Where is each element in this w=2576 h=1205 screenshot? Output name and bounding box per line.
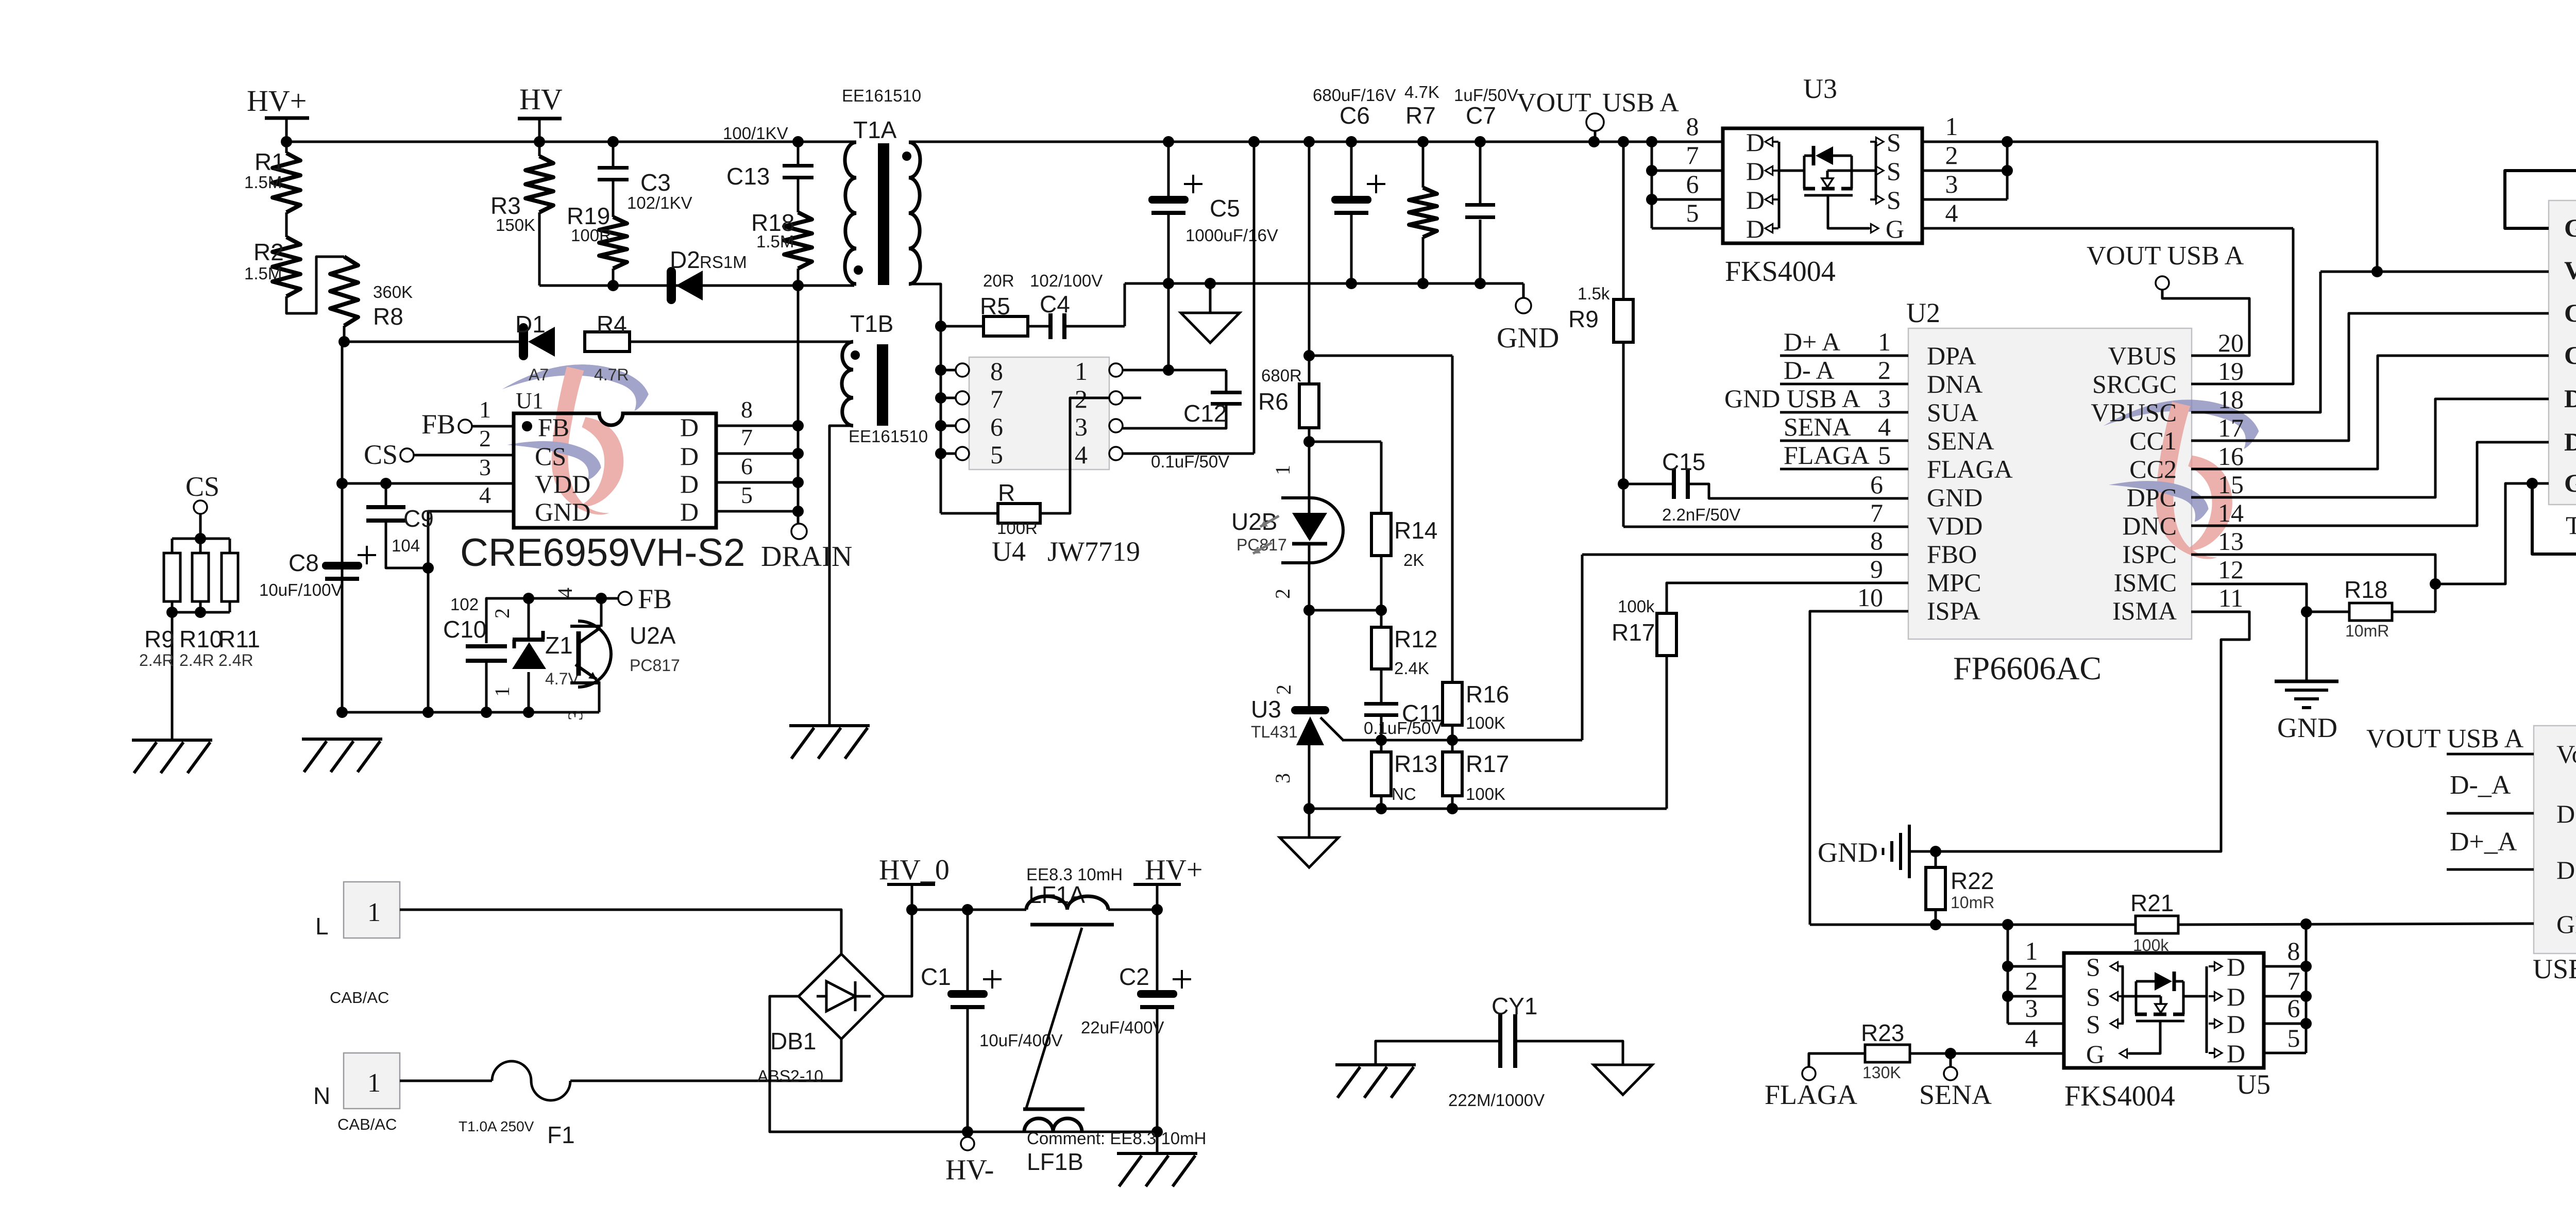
watermark logo left xyxy=(502,364,649,514)
svg-text:U2A: U2A xyxy=(630,622,676,649)
svg-text:FLAGA: FLAGA xyxy=(1784,441,1870,470)
svg-text:R21: R21 xyxy=(2130,890,2174,916)
wire U1 D pins to DRAIN xyxy=(716,425,798,427)
svg-text:R17: R17 xyxy=(1612,619,1655,646)
capacitor C15 2.2nF/50V xyxy=(1623,483,1672,486)
svg-text:20R: 20R xyxy=(983,271,1014,290)
svg-text:7: 7 xyxy=(2287,966,2300,995)
svg-text:TYPE C: TYPE C xyxy=(2566,511,2576,540)
wire FB node xyxy=(529,597,618,600)
svg-text:FP6606AC: FP6606AC xyxy=(1953,650,2102,687)
svg-text:6: 6 xyxy=(990,412,1003,441)
watermark logo right xyxy=(2104,399,2259,559)
node R19 bottom junction xyxy=(607,280,619,291)
svg-text:S: S xyxy=(2086,952,2100,981)
svg-text:GND: GND xyxy=(1818,837,1878,868)
IC U3 pin stubs left xyxy=(1652,170,1723,172)
svg-text:LF1A: LF1A xyxy=(1028,881,1085,908)
svg-text:R4: R4 xyxy=(597,311,627,338)
svg-text:VBUSC: VBUSC xyxy=(2091,398,2177,427)
wire bridge negative to HV- bus xyxy=(770,996,968,1132)
svg-text:GND: GND xyxy=(535,497,590,526)
connector N body xyxy=(344,1053,400,1109)
svg-text:MPC: MPC xyxy=(1927,568,1981,597)
wire R9 to VDD pin7 xyxy=(1623,526,1908,528)
diode D2 RS1M xyxy=(667,267,676,304)
svg-text:1: 1 xyxy=(479,396,491,423)
svg-text:1: 1 xyxy=(1271,465,1294,475)
node U2B cathode junction xyxy=(1303,605,1315,616)
svg-text:100R: 100R xyxy=(997,518,1038,538)
svg-text:102: 102 xyxy=(450,595,479,614)
node HV+ rail junctions xyxy=(281,136,292,147)
bridge rectifier DB1 ABS2-10 xyxy=(799,954,884,1039)
svg-text:1: 1 xyxy=(367,898,381,927)
svg-text:DNC: DNC xyxy=(2122,511,2177,540)
ground CY1 right triangle xyxy=(1594,1065,1652,1095)
ground CY1 left xyxy=(1335,1063,1416,1066)
resistor R18 1.5M xyxy=(784,212,812,269)
resistor R1 xyxy=(285,142,288,153)
svg-text:ABS2-10: ABS2-10 xyxy=(757,1067,823,1085)
svg-text:104: 104 xyxy=(392,536,420,555)
wire HV to D2 row xyxy=(539,284,798,287)
svg-text:NC: NC xyxy=(1392,784,1416,804)
node FB net junctions xyxy=(523,593,534,604)
svg-text:2.4K: 2.4K xyxy=(1394,659,1429,678)
svg-text:1: 1 xyxy=(367,1068,381,1098)
svg-text:VBUS: VBUS xyxy=(2108,341,2177,370)
ground T1B xyxy=(789,724,870,727)
svg-text:SENA: SENA xyxy=(1927,426,1994,455)
svg-text:Vout: Vout xyxy=(2556,740,2576,768)
svg-text:R1: R1 xyxy=(255,148,285,175)
terminal FLAGA xyxy=(1802,1067,1816,1080)
svg-text:U4: U4 xyxy=(992,536,1026,567)
svg-text:FBO: FBO xyxy=(1927,540,1977,568)
svg-text:2.4R: 2.4R xyxy=(218,651,253,670)
wire VDD node vertical xyxy=(341,342,344,712)
node R8 bottom junction xyxy=(338,336,350,347)
svg-text:Z1: Z1 xyxy=(545,632,573,659)
transformer T1A primary phase dot xyxy=(854,265,863,275)
node VBUS junction xyxy=(2371,266,2383,277)
wire U5 drain feed to D bus xyxy=(2183,995,2207,998)
ground GND bars xyxy=(2275,680,2338,683)
svg-text:D+: D+ xyxy=(2556,856,2576,884)
resistor R22 10mR xyxy=(1935,851,1937,867)
svg-text:22uF/400V: 22uF/400V xyxy=(1081,1018,1164,1037)
wire TYPE C shell ground xyxy=(2505,171,2576,554)
svg-text:2K: 2K xyxy=(1403,550,1424,570)
svg-text:10uF/100V: 10uF/100V xyxy=(259,580,342,599)
svg-text:6: 6 xyxy=(1686,170,1699,198)
svg-text:DB1: DB1 xyxy=(770,1028,816,1055)
IC U5 FKS4004 body xyxy=(2064,953,2264,1068)
svg-text:VOUT USB A: VOUT USB A xyxy=(2087,241,2244,271)
svg-text:C7: C7 xyxy=(1466,102,1496,129)
wire U4 pin1 to VOUT net xyxy=(1123,369,1226,372)
svg-text:SRCGC: SRCGC xyxy=(2092,370,2177,398)
wire LF1A to HV+ xyxy=(1108,909,1157,911)
capacitor C1 10uF/400V xyxy=(967,910,969,991)
svg-text:R17: R17 xyxy=(1466,750,1509,777)
resistor R16 100K xyxy=(1443,682,1462,725)
svg-text:R22: R22 xyxy=(1951,867,1994,894)
svg-text:ISPA: ISPA xyxy=(1927,596,1980,625)
svg-text:D: D xyxy=(2227,982,2245,1011)
svg-text:13: 13 xyxy=(2218,527,2244,556)
svg-text:ISMA: ISMA xyxy=(2112,596,2177,625)
svg-text:8: 8 xyxy=(1686,112,1699,141)
connector USB A body xyxy=(2534,726,2576,953)
IC U2 FP6606AC body xyxy=(1908,328,2192,639)
connector L body xyxy=(344,882,400,938)
svg-text:7: 7 xyxy=(741,424,753,450)
svg-text:N: N xyxy=(313,1082,330,1109)
svg-text:DRAIN: DRAIN xyxy=(761,541,852,573)
svg-text:G: G xyxy=(1886,214,1904,243)
svg-text:R5: R5 xyxy=(980,293,1010,320)
resistor R23 130K xyxy=(1865,1045,1910,1062)
svg-text:CS: CS xyxy=(185,471,219,502)
svg-text:C1: C1 xyxy=(921,963,951,990)
svg-text:SUA: SUA xyxy=(1927,398,1978,427)
svg-text:T1A: T1A xyxy=(853,116,897,143)
wire DPC pin15 to TYPE C D+ xyxy=(2191,399,2549,497)
svg-text:PC817: PC817 xyxy=(1236,535,1287,554)
svg-text:680R: 680R xyxy=(1261,366,1302,385)
resistor R 100R U4 xyxy=(941,512,998,515)
wire ISPC branch to GND C xyxy=(2435,483,2532,584)
svg-text:D: D xyxy=(1746,214,1765,243)
svg-text:DNA: DNA xyxy=(1927,370,1982,398)
svg-text:1.5M: 1.5M xyxy=(756,232,794,251)
resistor R19 100R xyxy=(599,217,627,269)
wire HV+ rail xyxy=(286,141,856,143)
svg-text:EE161510: EE161510 xyxy=(842,86,921,105)
wire R2 to R8 jog xyxy=(286,257,344,313)
node GND C junction xyxy=(2527,478,2538,489)
svg-text:3: 3 xyxy=(1075,412,1088,441)
IC U3 FKS4004 body xyxy=(1723,128,1922,243)
svg-text:CS: CS xyxy=(535,442,566,471)
node GND A junction xyxy=(2300,918,2312,930)
svg-text:VOUT USB A: VOUT USB A xyxy=(2366,724,2524,754)
svg-text:D: D xyxy=(2227,1039,2245,1068)
IC U1 CRE6959VH-S2 body xyxy=(514,413,716,528)
node D2 T1A junction xyxy=(792,280,804,291)
svg-text:S: S xyxy=(1887,157,1901,186)
svg-text:15: 15 xyxy=(2218,470,2244,499)
wire CS sense bottom xyxy=(172,611,230,614)
svg-text:102/100V: 102/100V xyxy=(1030,271,1103,290)
svg-text:2: 2 xyxy=(490,608,514,618)
svg-text:GND C: GND C xyxy=(2564,468,2576,497)
IC U3 gate wire xyxy=(1828,195,1869,228)
ground CS sense xyxy=(132,739,212,742)
capacitor C8 10uF/100V xyxy=(322,562,362,570)
svg-text:R9: R9 xyxy=(1568,306,1599,332)
svg-text:VBUS: VBUS xyxy=(2564,256,2576,284)
capacitor C3 102/1KV xyxy=(612,142,615,168)
optocoupler U2A PC817 transistor xyxy=(578,621,611,687)
transformer T1B winding xyxy=(842,342,853,426)
zener Z1 4.7V xyxy=(528,598,530,639)
capacitor C12 0.1uF/50V xyxy=(1225,370,1228,392)
svg-text:4: 4 xyxy=(479,482,491,508)
svg-text:D-_A: D-_A xyxy=(2450,771,2511,800)
svg-text:3: 3 xyxy=(1945,170,1958,198)
wire C5 vertical to U4 pin1 xyxy=(1167,283,1170,370)
svg-text:GND: GND xyxy=(2277,712,2337,743)
svg-text:VOUT: VOUT xyxy=(1517,88,1591,118)
svg-text:CAB/AC: CAB/AC xyxy=(330,989,389,1007)
resistor R10 2.4R sense xyxy=(199,539,202,553)
svg-text:R14: R14 xyxy=(1394,517,1437,544)
svg-text:SENA: SENA xyxy=(1784,412,1851,441)
svg-text:2.2nF/50V: 2.2nF/50V xyxy=(1662,505,1740,524)
terminal GND secondary xyxy=(1522,283,1525,298)
svg-text:VDD: VDD xyxy=(535,470,590,498)
svg-text:8: 8 xyxy=(2287,936,2300,965)
svg-text:U3: U3 xyxy=(1803,73,1837,104)
node R22 top junction xyxy=(1930,846,1941,857)
svg-text:R12: R12 xyxy=(1394,626,1437,652)
wire ISMC to ground xyxy=(2306,612,2308,680)
svg-text:C8: C8 xyxy=(289,549,319,576)
terminal FB right xyxy=(618,592,632,605)
svg-text:2: 2 xyxy=(1878,356,1891,384)
svg-text:R23: R23 xyxy=(1861,1019,1904,1046)
svg-text:100K: 100K xyxy=(1466,713,1505,732)
svg-text:100R: 100R xyxy=(571,226,612,245)
svg-text:C5: C5 xyxy=(1210,195,1240,222)
IC U4 pin circles right xyxy=(1109,363,1123,377)
svg-text:D: D xyxy=(1746,186,1765,214)
svg-text:D: D xyxy=(2227,1010,2245,1039)
svg-text:4: 4 xyxy=(1878,412,1891,441)
wire R4 to T1B xyxy=(630,341,853,343)
IC U5 mosfet xyxy=(2135,1013,2147,1016)
svg-text:USB A: USB A xyxy=(1602,88,1679,118)
wire ISPC pin13 to R18 node xyxy=(2191,555,2435,612)
svg-text:1.5k: 1.5k xyxy=(1578,284,1610,303)
svg-text:20: 20 xyxy=(2218,328,2244,357)
node ISPC R18 junction xyxy=(2430,578,2441,590)
svg-text:FKS4004: FKS4004 xyxy=(1725,256,1836,288)
svg-text:Comment: EE8.3 10mH: Comment: EE8.3 10mH xyxy=(1027,1129,1206,1148)
IC U5 body diode xyxy=(2123,995,2161,998)
svg-text:R11: R11 xyxy=(218,626,260,652)
wire ISMA pin11 jog xyxy=(1936,612,2249,851)
wire feedback mid bus xyxy=(1342,739,1582,742)
IC U2 pin stubs left 1-5 xyxy=(1780,355,1908,357)
resistor R12 2.4K xyxy=(1380,610,1383,627)
svg-text:S: S xyxy=(2086,1010,2100,1039)
wire U4 pin4 to VOUT rail xyxy=(1123,453,1254,455)
wire GND pin4 U1 xyxy=(428,511,514,712)
svg-text:VDD: VDD xyxy=(1927,511,1982,540)
wire C2 to ground xyxy=(1156,1132,1159,1152)
wire primary ground bus xyxy=(342,711,599,714)
svg-text:1: 1 xyxy=(1945,112,1958,141)
svg-text:FB: FB xyxy=(538,413,569,442)
wire R6 top jog to R16 xyxy=(1309,355,1452,357)
svg-text:5: 5 xyxy=(2287,1024,2300,1052)
svg-text:R2: R2 xyxy=(253,239,284,265)
svg-text:6: 6 xyxy=(741,453,753,479)
transformer T1A secondary winding xyxy=(909,142,920,284)
node DRAIN junctions xyxy=(792,420,804,431)
svg-text:F1: F1 xyxy=(547,1122,575,1148)
svg-text:100k: 100k xyxy=(1618,597,1655,616)
node SENA junction xyxy=(1945,1048,1956,1059)
svg-text:100/1KV: 100/1KV xyxy=(723,124,788,143)
node R18 left junction xyxy=(2301,606,2312,617)
svg-text:102/1KV: 102/1KV xyxy=(627,193,692,212)
svg-text:FKS4004: FKS4004 xyxy=(2064,1080,2175,1112)
svg-text:FLAGA: FLAGA xyxy=(1927,455,2013,483)
resistor R11 2.4R sense xyxy=(229,539,231,553)
svg-text:FB: FB xyxy=(421,409,455,440)
svg-text:360K: 360K xyxy=(373,282,413,302)
svg-text:D: D xyxy=(680,497,699,526)
resistor R5 20R xyxy=(941,325,984,328)
svg-text:222M/1000V: 222M/1000V xyxy=(1448,1091,1545,1110)
svg-text:8: 8 xyxy=(990,357,1003,386)
svg-text:5: 5 xyxy=(1878,441,1891,470)
svg-text:100K: 100K xyxy=(1466,784,1505,804)
ground triangle secondary xyxy=(1209,283,1212,313)
svg-text:D: D xyxy=(1746,157,1765,186)
capacitor C5 1000uF/16V xyxy=(1167,142,1170,197)
wire HV_0 rail xyxy=(912,909,1026,911)
svg-text:RS1M: RS1M xyxy=(700,253,747,272)
wire FBO to U2 pin8 xyxy=(1582,554,1908,556)
svg-text:6: 6 xyxy=(1870,470,1883,499)
svg-text:GND A: GND A xyxy=(2556,910,2576,939)
IC U3 right pin wires xyxy=(1922,141,2007,143)
svg-text:8: 8 xyxy=(741,396,753,423)
capacitor C11 0.1uF/50V xyxy=(1380,669,1383,703)
svg-text:D- A: D- A xyxy=(1784,356,1835,384)
svg-text:JW7719: JW7719 xyxy=(1047,536,1140,567)
svg-text:3: 3 xyxy=(479,454,491,480)
svg-text:10: 10 xyxy=(1857,583,1883,612)
svg-text:ISMC: ISMC xyxy=(2114,568,2177,597)
svg-text:USB A: USB A xyxy=(2533,953,2576,984)
svg-text:R16: R16 xyxy=(1466,681,1509,708)
wire ISMC pin12 to R18 xyxy=(2191,584,2307,612)
optocoupler U2B light arrows xyxy=(1260,516,1279,527)
svg-text:1.5M: 1.5M xyxy=(244,173,282,192)
svg-text:4: 4 xyxy=(1075,440,1088,469)
resistor R2 xyxy=(285,212,288,237)
svg-text:2: 2 xyxy=(1272,684,1295,695)
svg-text:R10: R10 xyxy=(179,626,223,652)
wire U3 source feed to S bus xyxy=(1827,170,1876,172)
svg-text:4: 4 xyxy=(1945,198,1958,227)
wire DRAIN vertical xyxy=(797,286,800,524)
resistor R8 360K xyxy=(330,257,358,326)
svg-text:R18: R18 xyxy=(2344,576,2387,603)
svg-text:D: D xyxy=(680,442,699,471)
inductor LF1B coupled xyxy=(1024,1118,1082,1132)
svg-text:D: D xyxy=(680,413,699,442)
svg-text:9: 9 xyxy=(1870,555,1883,583)
wire TL431 ref diagonal xyxy=(1320,717,1344,741)
svg-text:5: 5 xyxy=(990,440,1003,469)
svg-text:HV+: HV+ xyxy=(1145,854,1202,886)
svg-text:19: 19 xyxy=(2218,357,2244,386)
svg-text:FLAGA: FLAGA xyxy=(1765,1079,1857,1110)
resistor R6 680R xyxy=(1308,142,1311,384)
transformer T1B phase dot xyxy=(851,350,860,360)
svg-text:CC2: CC2 xyxy=(2129,455,2177,483)
wire CC2 pin16 to TYPE C CC2 xyxy=(2191,356,2549,469)
terminal HV- xyxy=(967,1132,969,1137)
svg-text:R13: R13 xyxy=(1394,750,1437,777)
svg-text:HV-: HV- xyxy=(945,1154,994,1186)
svg-text:2.4R: 2.4R xyxy=(139,651,174,670)
svg-text:1: 1 xyxy=(1075,357,1088,386)
svg-text:R8: R8 xyxy=(373,303,403,330)
wire U5 left bus xyxy=(2007,925,2009,1024)
svg-text:2: 2 xyxy=(2025,966,2038,995)
svg-text:4: 4 xyxy=(2025,1024,2038,1052)
svg-text:S: S xyxy=(2086,982,2100,1011)
terminal SENA xyxy=(1944,1067,1957,1080)
resistor R18 10mR xyxy=(2349,603,2392,621)
node VOUT rail junctions xyxy=(1163,136,1174,147)
svg-text:1: 1 xyxy=(2025,936,2038,965)
svg-text:CC1: CC1 xyxy=(2564,298,2576,327)
wire CC1 pin17 to TYPE C CC1 xyxy=(2191,313,2549,441)
svg-text:CS: CS xyxy=(364,439,398,470)
svg-text:CRE6959VH-S2: CRE6959VH-S2 xyxy=(460,531,745,575)
svg-text:DPA: DPA xyxy=(1927,341,1976,370)
svg-text:10mR: 10mR xyxy=(1951,893,1994,912)
wire ISPA from U2 pin10 xyxy=(1810,611,1908,925)
svg-text:4: 4 xyxy=(553,588,577,598)
svg-text:CAB/AC: CAB/AC xyxy=(337,1115,397,1133)
resistor R9 2.4R sense xyxy=(172,538,230,540)
svg-text:3: 3 xyxy=(564,710,587,721)
wire ISPA bus xyxy=(1810,924,2136,926)
svg-text:G: G xyxy=(2086,1040,2105,1068)
svg-text:130K: 130K xyxy=(1862,1063,1901,1082)
svg-text:EE161510: EE161510 xyxy=(849,427,928,446)
svg-text:10mR: 10mR xyxy=(2345,622,2389,640)
svg-text:U5: U5 xyxy=(2236,1069,2270,1100)
svg-text:0.1uF/50V: 0.1uF/50V xyxy=(1151,452,1229,471)
svg-text:4.7R: 4.7R xyxy=(594,365,629,384)
svg-text:U3: U3 xyxy=(1251,696,1281,723)
wire VBUSC pin18 to VBUS net xyxy=(2191,272,2320,412)
wire R to U4 pin2 xyxy=(1040,398,1109,513)
svg-text:1000uF/16V: 1000uF/16V xyxy=(1185,226,1278,245)
svg-text:T1.0A 250V: T1.0A 250V xyxy=(459,1118,534,1134)
svg-text:D+_A: D+_A xyxy=(2450,827,2517,857)
IC U4 pin circles left xyxy=(956,363,969,377)
svg-text:D: D xyxy=(1746,128,1765,157)
svg-text:3: 3 xyxy=(2025,994,2038,1023)
svg-text:C13: C13 xyxy=(726,163,770,190)
transformer T1A primary winding xyxy=(845,142,856,284)
svg-text:7: 7 xyxy=(1870,498,1883,527)
IC U3 body diode xyxy=(1779,170,1804,172)
